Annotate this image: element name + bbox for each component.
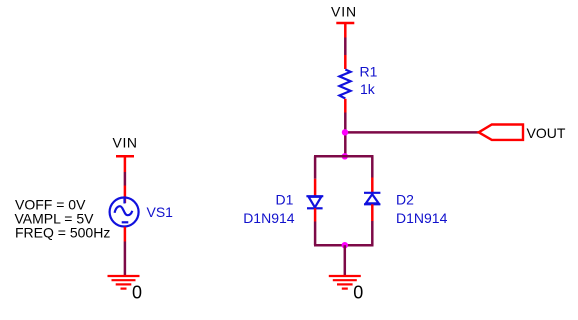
- wire rail to ground: [344, 245, 347, 276]
- wire node to VOUT: [345, 131, 478, 134]
- wire bottom rail: [314, 244, 374, 247]
- label VOFF = 0V: [15, 197, 86, 213]
- wire VS1 to ground: [124, 242, 127, 277]
- label FREQ = 500Hz: [15, 225, 110, 241]
- pin R1 top: [344, 55, 347, 69]
- svg-text:VIN: VIN: [113, 135, 138, 151]
- diode D1: [306, 196, 323, 208]
- off-page connector VIN (right): [336, 23, 354, 38]
- pin D1 anode: [314, 179, 317, 196]
- label R1: [360, 64, 378, 80]
- svg-text:1k: 1k: [360, 81, 376, 97]
- net label VIN (left): [113, 135, 138, 151]
- svg-text:R1: R1: [360, 64, 378, 80]
- wire VIN to R1: [344, 38, 347, 56]
- wire top rail: [314, 155, 374, 158]
- svg-text:VOUT: VOUT: [527, 125, 566, 141]
- pin R1 bottom: [344, 99, 347, 113]
- pin D1 cathode: [314, 208, 317, 221]
- wire rail to D2: [371, 156, 374, 177]
- label D1N914 (left): [243, 210, 295, 226]
- svg-text:VIN: VIN: [331, 4, 357, 20]
- pin VS1 plus: [124, 186, 127, 204]
- source VS1: [110, 198, 139, 227]
- label VOUT: [527, 125, 566, 141]
- junction node diode top: [342, 153, 348, 159]
- svg-text:D1N914: D1N914: [243, 210, 295, 226]
- pin VS1 minus: [124, 227, 127, 242]
- wire rail to D1: [314, 156, 317, 179]
- wire D1 to bottom rail: [314, 222, 317, 246]
- wire D2 to bottom rail: [371, 221, 374, 245]
- svg-text:D1N914: D1N914: [396, 210, 448, 226]
- pin D2 anode: [371, 204, 374, 221]
- label VS1: [147, 204, 174, 220]
- svg-text:FREQ = 500Hz: FREQ = 500Hz: [15, 225, 110, 241]
- label 0 (right): [353, 283, 363, 303]
- svg-text:0: 0: [353, 283, 363, 303]
- svg-text:0: 0: [132, 283, 142, 303]
- ground 0 (left): [108, 276, 140, 289]
- junction node diode bottom: [342, 242, 348, 248]
- label D1: [276, 192, 294, 208]
- wire VIN to VS1: [124, 172, 127, 186]
- pin D2 cathode: [371, 178, 374, 193]
- label 0 (left): [132, 283, 142, 303]
- label D1N914 (right): [396, 210, 448, 226]
- label VAMPL = 5V: [15, 211, 95, 227]
- net label VIN (right): [331, 4, 357, 20]
- off-page connector VIN (left): [116, 156, 134, 172]
- label 1k: [360, 81, 376, 97]
- svg-text:VS1: VS1: [147, 204, 174, 220]
- label D2: [396, 192, 414, 208]
- diode D2: [364, 193, 380, 205]
- ground 0 (right): [329, 276, 361, 289]
- svg-text:D2: D2: [396, 192, 414, 208]
- wire R1 to node: [344, 113, 347, 158]
- resistor R1: [339, 70, 350, 99]
- off-page connector VOUT: [479, 125, 523, 140]
- junction node VOUT: [342, 129, 348, 135]
- svg-text:D1: D1: [276, 192, 294, 208]
